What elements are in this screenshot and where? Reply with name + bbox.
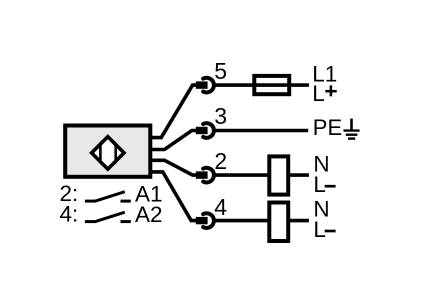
wire pin4 to N/L-: [213, 219, 309, 223]
fuse F1: [254, 76, 289, 94]
switch contact A1: [85, 192, 131, 202]
load 2: [269, 203, 288, 242]
sensor body box: [65, 126, 150, 177]
svg-text:A2: A2: [135, 202, 163, 227]
wire pin2 to N/L-: [213, 173, 309, 177]
sensor diamond symbol: [92, 137, 124, 169]
label L- (pin2): [313, 172, 335, 197]
connector pin 4: [196, 213, 214, 228]
wire pin 3: [152, 131, 199, 150]
wire pin5 to L1/L+: [213, 83, 309, 87]
svg-text:4:: 4:: [60, 201, 79, 226]
label L+: [312, 81, 336, 106]
wire pin3 to PE: [213, 129, 308, 133]
earth ground symbol: [344, 119, 360, 139]
wire pin 5: [152, 85, 199, 138]
svg-text:2: 2: [214, 148, 227, 174]
svg-text:5: 5: [214, 58, 227, 84]
connector pin 3: [196, 123, 214, 138]
svg-text:PE: PE: [313, 115, 342, 140]
label L- (pin4): [313, 217, 335, 242]
connector pin 2: [196, 168, 214, 183]
svg-text:3: 3: [214, 103, 227, 129]
wire pin 4: [152, 172, 199, 221]
switch contact A2: [85, 212, 131, 222]
svg-text:L: L: [313, 217, 326, 242]
svg-text:L: L: [312, 81, 325, 106]
load 1: [269, 156, 288, 194]
svg-text:L: L: [313, 172, 326, 197]
svg-text:4: 4: [214, 194, 227, 220]
wire pin 2: [152, 160, 199, 175]
connector pin 5: [196, 78, 214, 93]
